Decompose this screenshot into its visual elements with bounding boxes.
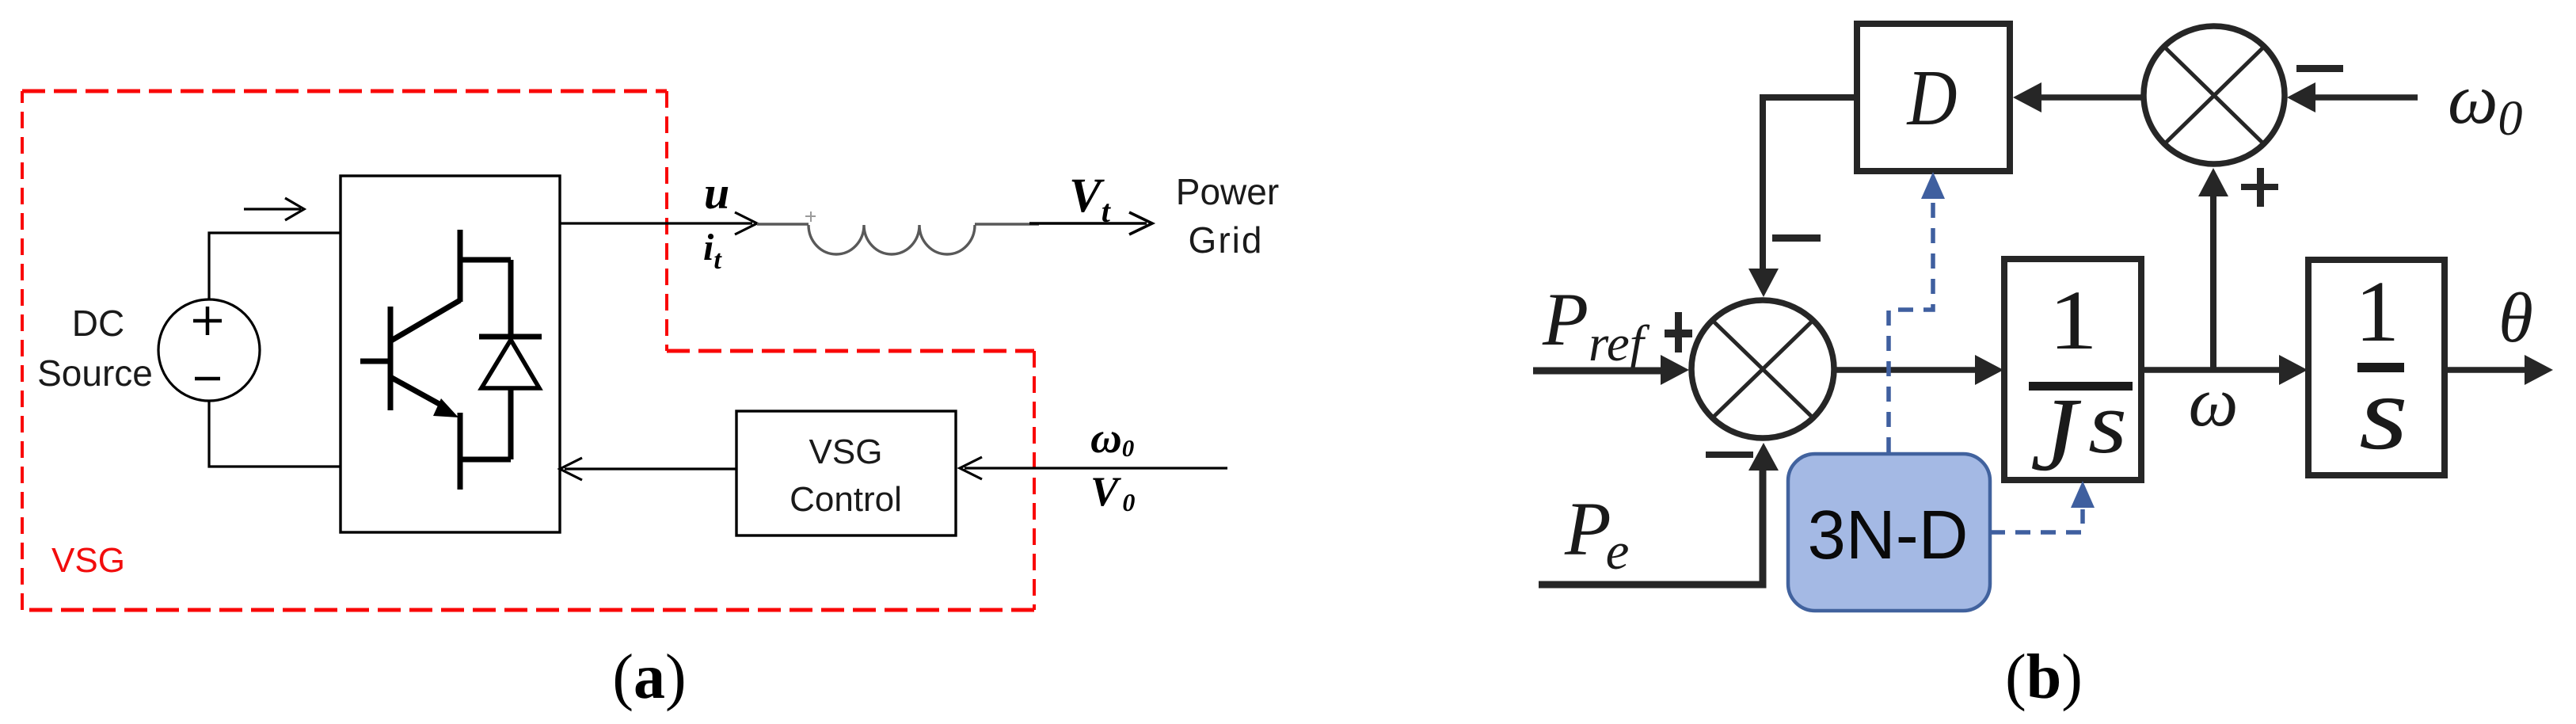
arrowhead into VSG control bbox=[960, 457, 982, 479]
svg-text:(a): (a) bbox=[612, 642, 686, 712]
wire: DC source top to inverter bbox=[209, 233, 341, 299]
1/Js block bbox=[2004, 259, 2141, 480]
svg-text:(b): (b) bbox=[2005, 642, 2083, 712]
svg-text:s: s bbox=[2088, 375, 2127, 472]
svg-text:Power: Power bbox=[1176, 171, 1279, 212]
DC source V1 bbox=[158, 299, 260, 401]
VSG boundary (red dashed) middle edge bbox=[667, 349, 1034, 353]
wire: reference input to VSG control bbox=[965, 467, 1227, 469]
VSG Control label bbox=[790, 432, 902, 519]
svg-text:D: D bbox=[1906, 53, 1958, 142]
VSG boundary (red dashed) inner right edge bbox=[665, 91, 668, 351]
IGBT emitter arrowhead bbox=[433, 398, 459, 417]
svg-text:DC: DC bbox=[72, 303, 124, 344]
svg-text:Grid: Grid bbox=[1189, 219, 1264, 261]
blue arrowhead into D bottom bbox=[1921, 172, 1945, 199]
wire: multiplier to D block bbox=[2032, 94, 2143, 101]
wire: to power grid Vt bbox=[1029, 222, 1147, 225]
Power Grid label bbox=[1176, 171, 1279, 261]
svg-text:VSG: VSG bbox=[51, 541, 125, 580]
svg-text:1: 1 bbox=[2355, 263, 2399, 360]
VSG boundary (red dashed) left edge bbox=[21, 91, 24, 610]
wire: omega0 into multiplier bbox=[2304, 94, 2418, 101]
VSG boundary (red dashed) bottom edge bbox=[22, 608, 1034, 612]
1/s label bbox=[2355, 263, 2408, 471]
plus sign at multiplier bottom bbox=[2241, 168, 2278, 207]
inductor L1 bbox=[757, 224, 1039, 254]
arrowhead of Vt wire bbox=[1129, 212, 1152, 234]
wire: VSG control to inverter bbox=[565, 467, 736, 470]
svg-text:Source: Source bbox=[37, 352, 153, 394]
arrowhead into 1/Js left bbox=[1975, 355, 2003, 385]
svg-text:u: u bbox=[704, 167, 729, 219]
inverter box U1 bbox=[341, 176, 560, 532]
plus sign at Pref input bbox=[1665, 312, 1692, 352]
arrowhead into multiplier right bbox=[2287, 82, 2315, 112]
wire: summing junction to 1/Js bbox=[1834, 367, 1980, 373]
plus sign of DC source bbox=[193, 307, 222, 335]
svg-text:Control: Control bbox=[790, 480, 902, 519]
VSG Control box bbox=[736, 411, 956, 535]
dashed wire: 3N-D to D block bbox=[1889, 200, 1933, 452]
multiplier M1 (top right circle) bbox=[2144, 26, 2285, 164]
minus sign of DC source bbox=[195, 377, 220, 381]
wire: Pref input bbox=[1533, 368, 1667, 375]
dashed wire: 3N-D to 1/Js bbox=[1990, 509, 2083, 532]
svg-text:ω: ω bbox=[2189, 364, 2239, 441]
IGBT Q1 bbox=[360, 230, 511, 490]
1/s block bbox=[2308, 260, 2445, 475]
summing junction S1 bbox=[1691, 300, 1834, 438]
wire: Pe input bbox=[1539, 467, 1763, 585]
arrowhead theta output bbox=[2525, 355, 2553, 385]
arrowhead into summing junction bottom bbox=[1748, 443, 1779, 471]
summing junction S1 cross bbox=[1712, 320, 1813, 418]
plus mark at inductor bbox=[805, 211, 816, 222]
wire: omega branch up into multiplier bbox=[2210, 190, 2216, 370]
wire: D output to summing junction bbox=[1763, 97, 1857, 271]
arrowhead into 1/s left bbox=[2279, 355, 2308, 385]
arrowhead of u wire bbox=[735, 212, 757, 234]
arrowhead into inverter bbox=[560, 458, 582, 480]
arrowhead into multiplier bottom bbox=[2198, 168, 2228, 196]
arrowhead into summing junction left bbox=[1661, 355, 1689, 385]
svg-text:3N-D: 3N-D bbox=[1807, 497, 1968, 573]
VSG boundary (red dashed) right edge bbox=[1033, 351, 1036, 610]
wire: inverter output u bbox=[560, 222, 752, 224]
minus sign above summing junction bbox=[1772, 234, 1821, 242]
svg-text:s: s bbox=[2359, 354, 2408, 471]
3N-D block bbox=[1788, 454, 1990, 611]
arrowhead into summing junction top bbox=[1748, 269, 1779, 297]
svg-text:θ: θ bbox=[2498, 280, 2533, 357]
minus sign below summing junction bbox=[1706, 452, 1753, 458]
VSG boundary (red dashed) top edge bbox=[22, 90, 667, 93]
svg-text:VSG: VSG bbox=[809, 432, 883, 471]
diode D1 bbox=[479, 260, 542, 459]
multiplier M1 cross bbox=[2164, 47, 2264, 144]
wire: DC source bottom to inverter bbox=[209, 401, 341, 467]
svg-text:1: 1 bbox=[2049, 274, 2098, 368]
D block bbox=[1857, 24, 2010, 171]
DC Source label bbox=[37, 303, 153, 394]
current direction arrow bbox=[244, 198, 304, 220]
arrowhead into D right bbox=[2013, 82, 2041, 112]
wire: 1/Js to 1/s bbox=[2141, 367, 2282, 373]
minus sign at multiplier top bbox=[2296, 65, 2343, 72]
blue arrowhead into 1/Js bottom bbox=[2071, 481, 2095, 508]
wire: theta output bbox=[2445, 367, 2528, 373]
svg-text:J: J bbox=[2030, 375, 2082, 493]
1/Js label bbox=[2029, 274, 2133, 493]
